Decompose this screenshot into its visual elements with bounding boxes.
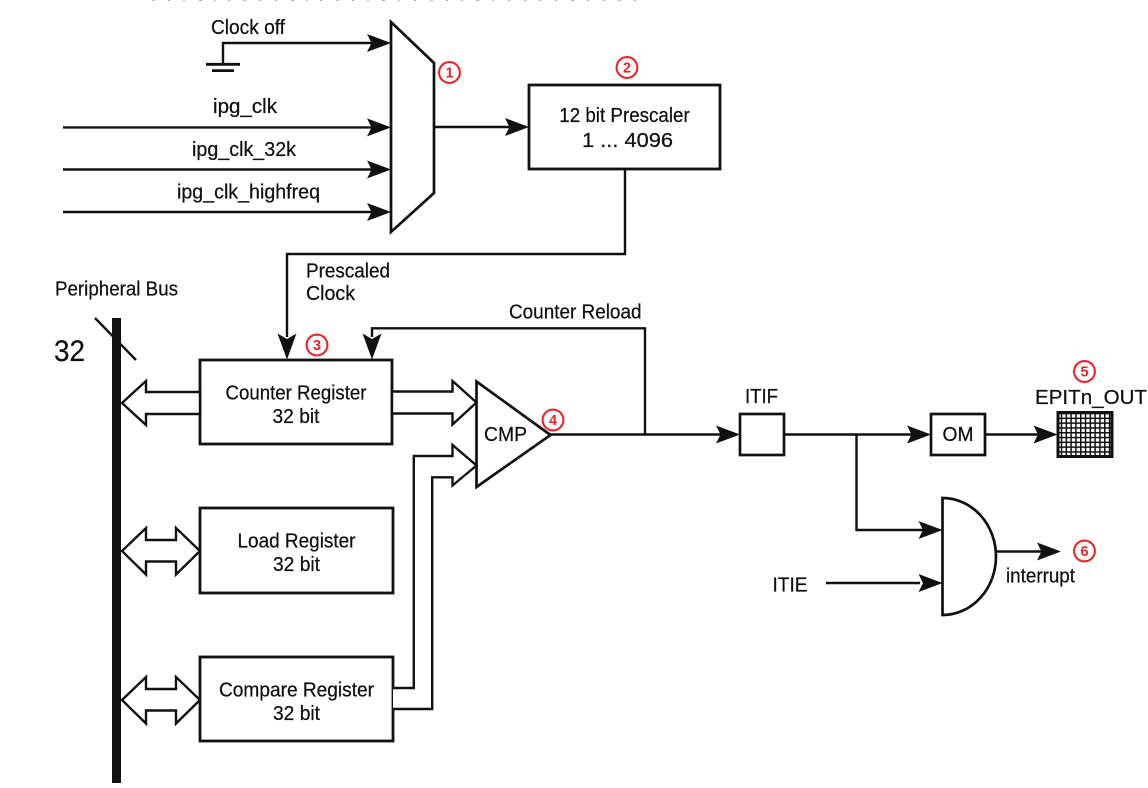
svg-text:ITIE: ITIE	[773, 574, 808, 597]
svg-text:6: 6	[1080, 544, 1088, 560]
arrowhead: interrupt	[1037, 543, 1061, 561]
hollow arrow: bus to/from load register	[122, 528, 200, 575]
callout 2	[617, 57, 638, 78]
bus width slash	[95, 318, 136, 360]
pad: EPITn_OUT (hatched)	[1058, 413, 1112, 457]
svg-text:1: 1	[445, 66, 453, 82]
wire: counter reload	[372, 328, 645, 434]
callout 3	[307, 335, 328, 356]
svg-text:Peripheral Bus: Peripheral Bus	[55, 278, 178, 301]
arrowhead: ipg_clk_highfreq into mux	[367, 203, 391, 221]
hollow arrow: bus to/from compare register	[122, 677, 200, 724]
svg-text:1 ... 4096: 1 ... 4096	[582, 129, 673, 152]
arrowhead: into ITIF	[716, 426, 740, 444]
wire: Clock off input	[223, 43, 380, 64]
wire: ipg_clk_32k	[63, 168, 380, 170]
block: Counter Register	[200, 360, 392, 444]
arrowhead: into OM	[907, 426, 931, 444]
callout 1	[439, 62, 460, 83]
wire: ipg_clk_highfreq	[63, 211, 380, 213]
svg-text:32 bit: 32 bit	[273, 553, 320, 576]
svg-text:Counter Register: Counter Register	[226, 382, 367, 405]
svg-text:ipg_clk_highfreq: ipg_clk_highfreq	[177, 181, 320, 204]
arrowhead: prescaled clock into counter register	[278, 334, 297, 360]
svg-text:CMP: CMP	[484, 423, 527, 446]
AND gate	[943, 498, 996, 615]
hollow arrow: counter register to CMP	[392, 381, 477, 425]
svg-text:32 bit: 32 bit	[273, 405, 320, 428]
svg-text:EPITn_OUT: EPITn_OUT	[1035, 386, 1147, 409]
arrowhead: into prescaler	[505, 118, 529, 136]
arrowhead: branch into AND gate	[919, 521, 943, 539]
block: OM	[931, 414, 985, 455]
wire: ITIF branch to AND gate	[857, 435, 932, 531]
ground	[206, 64, 240, 70]
arrowhead: ipg_clk into mux	[367, 118, 391, 136]
svg-text:ipg_clk: ipg_clk	[213, 95, 278, 118]
wire: ITIE input	[826, 582, 920, 584]
wire: ITIF to OM	[784, 433, 920, 435]
svg-text:4: 4	[549, 413, 557, 429]
wire: CMP output to ITIF	[551, 433, 730, 435]
mux (clock select)	[391, 22, 434, 232]
arrowhead: into pad	[1034, 426, 1058, 444]
wire: mux output to prescaler	[434, 126, 518, 128]
svg-text:ITIF: ITIF	[745, 385, 778, 408]
svg-text:32: 32	[54, 335, 85, 368]
cropped text remnants top edge	[152, 0, 636, 1]
peripheral bus bar	[112, 318, 121, 783]
svg-text:32 bit: 32 bit	[273, 702, 320, 725]
block: Compare Register	[200, 657, 393, 741]
block: 12 bit Prescaler	[529, 85, 720, 169]
block: Load Register	[200, 508, 393, 593]
wire: interrupt output	[996, 550, 1050, 552]
wire: ipg_clk	[63, 126, 380, 128]
wire: OM to EPITn_OUT pad	[985, 433, 1046, 435]
svg-text:Counter Reload: Counter Reload	[509, 301, 642, 324]
arrowhead: Clock off into mux	[367, 34, 391, 52]
comparator CMP	[477, 382, 551, 488]
svg-text:Load Register: Load Register	[238, 530, 356, 553]
svg-text:Compare Register: Compare Register	[219, 679, 374, 702]
svg-text:5: 5	[1080, 365, 1088, 381]
svg-text:OM: OM	[943, 423, 974, 446]
svg-text:ipg_clk_32k: ipg_clk_32k	[192, 138, 297, 161]
svg-text:2: 2	[623, 61, 631, 77]
svg-text:interrupt: interrupt	[1006, 565, 1075, 588]
wire: prescaler output (prescaled clock)	[287, 169, 625, 337]
svg-text:Prescaled: Prescaled	[306, 260, 390, 283]
callout 5	[1074, 361, 1095, 382]
callout 4	[543, 410, 564, 431]
svg-text:Clock: Clock	[306, 282, 356, 305]
arrowhead: counter reload into counter register	[363, 334, 382, 360]
hollow arrow: compare register to CMP	[393, 445, 477, 709]
hollow arrow: counter register to bus	[122, 381, 200, 425]
svg-text:12 bit Prescaler: 12 bit Prescaler	[559, 104, 690, 127]
callout 6	[1074, 541, 1095, 562]
arrowhead: ipg_clk_32k into mux	[367, 161, 391, 179]
arrowhead: ITIE into AND gate	[919, 574, 943, 592]
svg-text:Clock off: Clock off	[211, 16, 285, 39]
block: ITIF	[740, 414, 784, 455]
svg-text:3: 3	[313, 338, 321, 354]
